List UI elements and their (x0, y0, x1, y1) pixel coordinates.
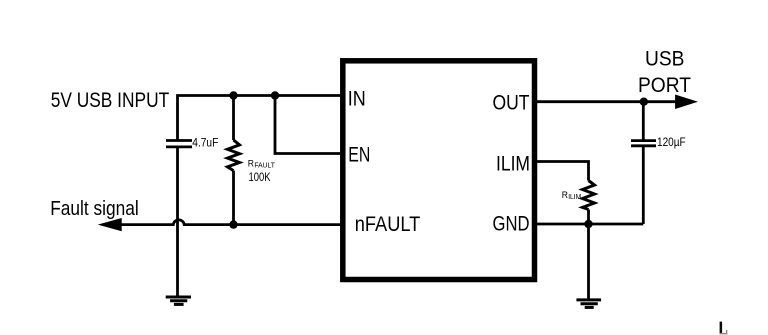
svg-text:ILIM: ILIM (568, 194, 581, 201)
ground left (166, 297, 191, 304)
arrow USB port (675, 95, 698, 110)
svg-text:OUT: OUT (493, 92, 530, 115)
wire nFAULT with hop (120, 220, 340, 225)
capacitor C1 4.7uF plates (166, 139, 192, 142)
op-amp U1 IC body (343, 61, 535, 280)
svg-text:100K: 100K (249, 172, 271, 184)
svg-text:FAULT: FAULT (254, 162, 275, 169)
svg-text:ILIM: ILIM (496, 152, 530, 175)
node junction GND-RILIM (584, 220, 592, 228)
svg-text:4.7uF: 4.7uF (192, 138, 218, 150)
svg-text:120µF: 120µF (657, 137, 686, 149)
svg-text:USB: USB (645, 48, 685, 71)
wire EN (275, 96, 340, 154)
svg-text:EN: EN (348, 144, 370, 167)
node junction IN-cap (229, 91, 237, 99)
svg-text:Fault signal: Fault signal (50, 198, 139, 220)
resistor R1 RFAULT (232, 96, 235, 141)
wire RILIM to ground (587, 224, 590, 300)
svg-text:R: R (248, 158, 254, 169)
svg-text:IN: IN (348, 88, 366, 111)
capacitor C2 120uF (642, 102, 645, 141)
svg-text:nFAULT: nFAULT (355, 213, 421, 236)
node junction IN-EN (271, 91, 279, 99)
wire ILIM (537, 162, 589, 181)
svg-text:5V USB INPUT: 5V USB INPUT (51, 89, 170, 112)
resistor R2 RILIM (583, 181, 595, 210)
wire input top (178, 96, 341, 141)
node junction nFAULT (229, 220, 237, 228)
wire cap to ground (176, 147, 179, 297)
wire GND (537, 223, 643, 226)
ground right (576, 300, 601, 308)
wire OUT (537, 100, 680, 103)
svg-text:GND: GND (493, 212, 530, 235)
svg-text:R: R (562, 190, 568, 201)
arrow fault signal (98, 218, 122, 231)
node junction OUT-cap (640, 98, 648, 106)
watermark L mark (720, 322, 728, 335)
svg-text:PORT: PORT (638, 74, 691, 97)
